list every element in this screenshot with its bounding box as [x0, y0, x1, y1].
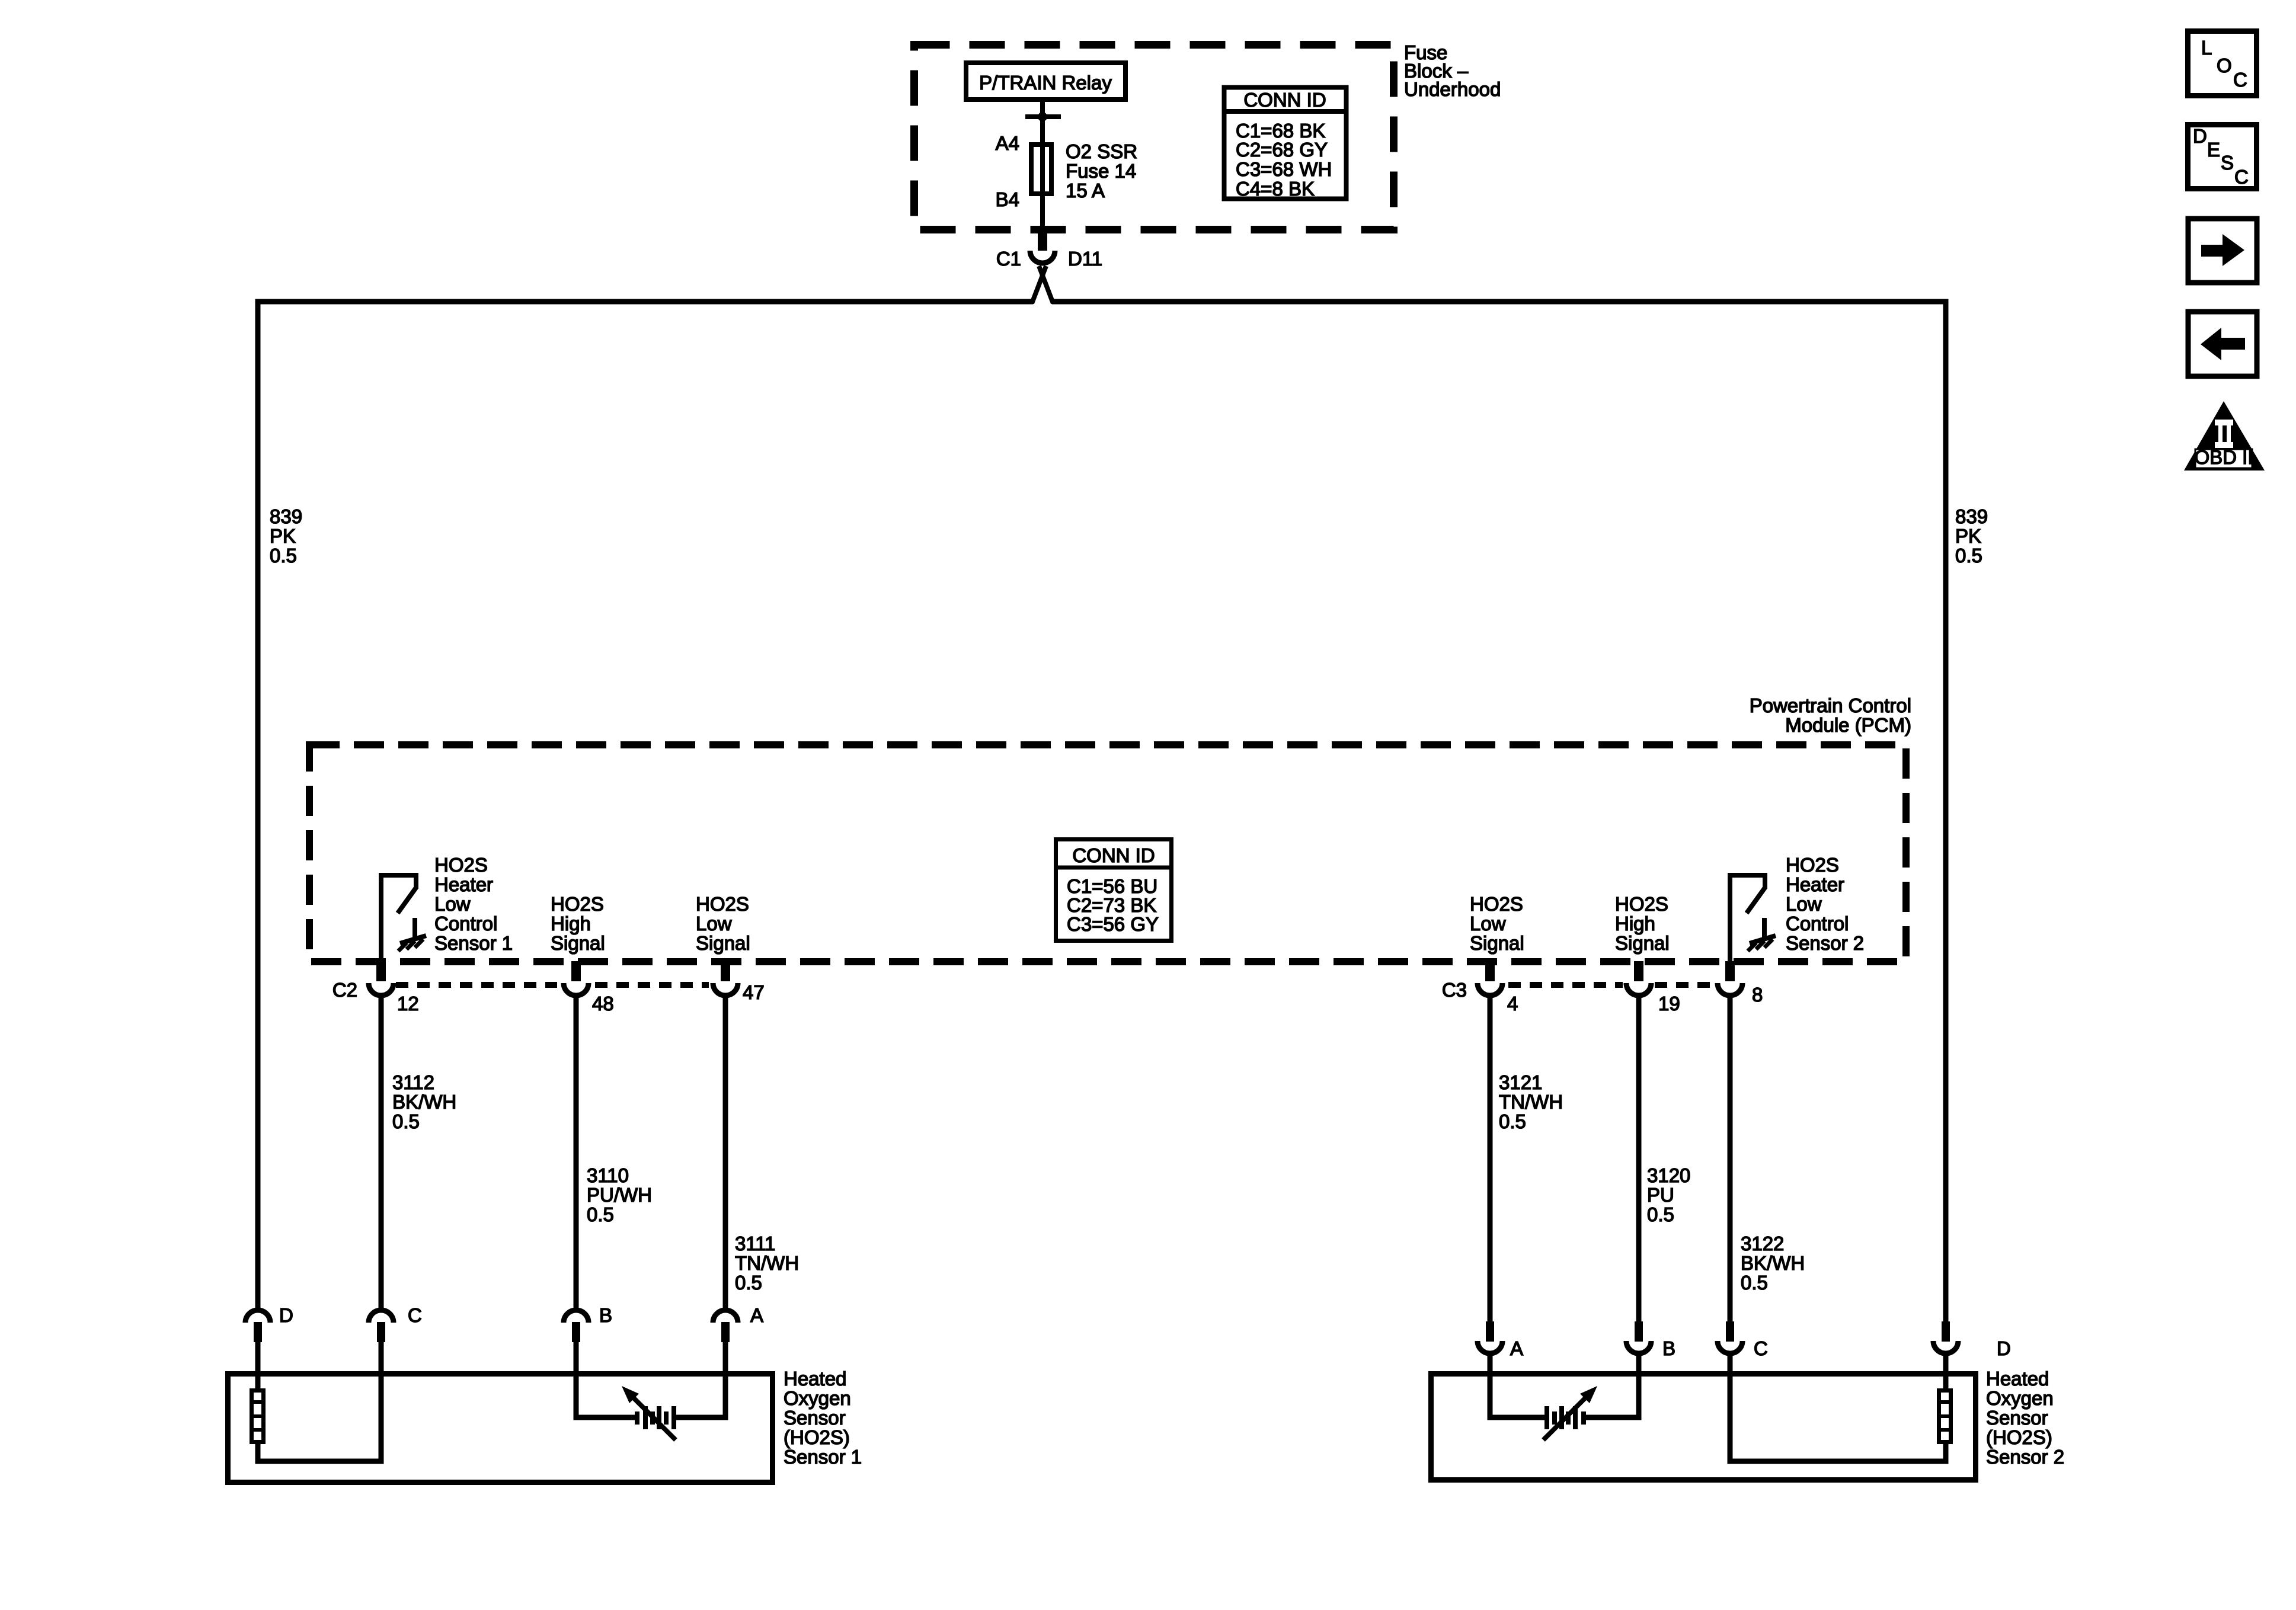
HO2S heater low control driver switch (sensor 1) — [379, 875, 418, 972]
right 839 PK 0.5 label — [1955, 505, 1988, 566]
svg-text:0.5: 0.5 — [1647, 1204, 1674, 1225]
svg-text:3112: 3112 — [392, 1071, 434, 1093]
svg-text:0.5: 0.5 — [735, 1272, 762, 1294]
svg-text:12: 12 — [397, 993, 419, 1014]
sensor2 name label — [1986, 1368, 2064, 1468]
dotted connector line C2 — [396, 982, 709, 988]
svg-text:Low: Low — [696, 913, 732, 934]
sensor1 variable arrow — [622, 1386, 676, 1440]
svg-text:0.5: 0.5 — [392, 1110, 420, 1132]
sensor2 pin D connector — [1933, 1321, 1958, 1375]
wire 3122 BK/WH — [1728, 997, 1733, 1321]
wire 3112 BK/WH — [379, 997, 384, 1309]
svg-text:Control: Control — [1786, 913, 1849, 934]
svg-text:Sensor 2: Sensor 2 — [1786, 932, 1864, 954]
sensor2 variable arrow — [1543, 1386, 1597, 1440]
svg-text:0.5: 0.5 — [1499, 1110, 1526, 1132]
svg-text:Signal: Signal — [1470, 932, 1524, 954]
svg-text:CONN ID: CONN ID — [1243, 89, 1326, 111]
connector C1 pin D11 labels — [996, 248, 1102, 270]
ground stub (sensor 2 driver) — [1762, 918, 1767, 937]
sensor1 box Heated Oxygen Sensor 1 — [228, 1374, 773, 1483]
svg-text:Module (PCM): Module (PCM) — [1785, 714, 1911, 736]
svg-text:TN/WH: TN/WH — [1499, 1091, 1563, 1113]
svg-text:HO2S: HO2S — [1786, 854, 1839, 876]
PCM dashed box — [309, 745, 1906, 962]
svg-text:839: 839 — [1955, 505, 1988, 527]
svg-text:HO2S: HO2S — [1615, 893, 1668, 915]
label 3112 BK/WH 0.5 — [392, 1071, 456, 1132]
svg-text:47: 47 — [743, 981, 765, 1003]
svg-text:C1: C1 — [996, 248, 1021, 270]
svg-text:C: C — [408, 1304, 422, 1326]
svg-text:PK: PK — [270, 525, 296, 547]
svg-text:HO2S: HO2S — [551, 893, 604, 915]
svg-text:3110: 3110 — [587, 1164, 629, 1186]
svg-text:Fuse 14: Fuse 14 — [1066, 160, 1136, 182]
svg-text:Sensor 1: Sensor 1 — [434, 932, 513, 954]
sensor1 sense cell wiring — [576, 1374, 725, 1417]
left 839 PK 0.5 label — [270, 505, 302, 566]
svg-text:C: C — [1754, 1337, 1768, 1359]
forward arrow icon — [2188, 219, 2257, 283]
svg-text:8: 8 — [1752, 984, 1763, 1006]
wire 839 PK right run — [1052, 302, 1946, 1321]
svg-text:HO2S: HO2S — [434, 854, 488, 876]
sensor1 pin A connector — [713, 1310, 738, 1375]
label 3121 TN/WH 0.5 — [1499, 1071, 1563, 1132]
HO2S heater low control driver switch (sensor 2) — [1728, 875, 1767, 972]
svg-text:Low: Low — [434, 893, 471, 915]
LOC icon — [2188, 31, 2257, 96]
svg-text:B4: B4 — [996, 188, 1019, 210]
svg-text:High: High — [1615, 913, 1655, 934]
PCM pin 8 connector — [1718, 961, 1742, 996]
svg-text:PU: PU — [1647, 1184, 1674, 1206]
sensor2 sense cell wiring — [1490, 1374, 1639, 1417]
relay P/TRAIN Relay — [966, 63, 1125, 100]
wire 839 PK left run — [258, 302, 1033, 1309]
svg-text:C4=8 BK: C4=8 BK — [1236, 178, 1315, 200]
svg-text:Low: Low — [1470, 913, 1506, 934]
PCM pin 4 connector C3 — [1478, 961, 1502, 996]
svg-text:Heated: Heated — [1986, 1368, 2049, 1390]
PCM name label Powertrain Control Module — [1750, 694, 1911, 736]
PCM pin 47 connector — [713, 961, 738, 996]
sensor2 pin C connector — [1718, 1321, 1742, 1375]
DESC icon — [2188, 125, 2257, 189]
sensor2 heater element — [1937, 1391, 1953, 1442]
wire 3121 TN/WH — [1488, 997, 1493, 1321]
svg-text:P/TRAIN Relay: P/TRAIN Relay — [979, 72, 1112, 94]
svg-text:(HO2S): (HO2S) — [784, 1426, 850, 1448]
svg-text:L: L — [2201, 37, 2212, 59]
CONN ID table (fuse block) — [1222, 88, 1348, 200]
HO2S High Signal label (pin 19) — [1615, 893, 1670, 954]
svg-text:839: 839 — [270, 505, 302, 527]
svg-text:Low: Low — [1786, 893, 1822, 915]
sensor1 pin D connector — [245, 1310, 270, 1375]
svg-text:C: C — [2234, 166, 2249, 188]
splice Y from C1 D11 to 839 bus — [1032, 266, 1053, 303]
svg-text:3111: 3111 — [735, 1233, 776, 1254]
svg-text:0.5: 0.5 — [270, 545, 297, 566]
HO2S Heater Low Control Sensor 2 label — [1786, 854, 1864, 954]
fuse block dashed box (Fuse Block - Underhood) — [914, 45, 1394, 230]
svg-text:Control: Control — [434, 913, 497, 934]
svg-text:OBD II: OBD II — [2194, 446, 2253, 468]
svg-text:O2 SSR: O2 SSR — [1066, 140, 1137, 162]
svg-text:O: O — [2217, 55, 2232, 76]
HO2S Low Signal label (pin 47) — [696, 893, 750, 954]
svg-text:S: S — [2221, 152, 2234, 174]
svg-text:C2: C2 — [332, 979, 357, 1001]
sensor1 name label — [784, 1368, 862, 1468]
svg-text:High: High — [551, 913, 591, 934]
dotted connector line C3 — [1508, 982, 1714, 988]
sensor1 heater element — [250, 1391, 266, 1442]
svg-text:B: B — [1662, 1337, 1675, 1359]
svg-text:Underhood: Underhood — [1404, 78, 1501, 100]
svg-text:Sensor: Sensor — [1986, 1407, 2048, 1429]
PCM pin 19 connector — [1626, 961, 1651, 996]
svg-text:HO2S: HO2S — [696, 893, 749, 915]
svg-text:Sensor 1: Sensor 1 — [784, 1446, 862, 1468]
sensor1 pin B connector — [564, 1310, 589, 1375]
svg-text:Oxygen: Oxygen — [1986, 1387, 2054, 1409]
svg-text:3122: 3122 — [1741, 1233, 1784, 1254]
chassis ground (sensor 2 driver) — [1748, 936, 1776, 951]
sensor1 pin C connector — [369, 1310, 394, 1375]
svg-text:Heater: Heater — [1786, 873, 1844, 895]
CONN ID table (PCM) — [1054, 840, 1172, 941]
svg-text:Oxygen: Oxygen — [784, 1387, 851, 1409]
svg-text:3120: 3120 — [1647, 1164, 1690, 1186]
chassis ground (sensor 1 driver) — [398, 936, 426, 951]
svg-text:Sensor 2: Sensor 2 — [1986, 1446, 2064, 1468]
wire 3111 TN/WH — [723, 997, 728, 1309]
svg-text:C3=68 WH: C3=68 WH — [1236, 158, 1332, 180]
svg-text:19: 19 — [1658, 993, 1680, 1014]
relay pin tee bar — [1025, 114, 1061, 119]
label 3120 PU 0.5 — [1647, 1164, 1690, 1225]
label 3110 PU/WH 0.5 — [587, 1164, 652, 1225]
svg-text:HO2S: HO2S — [1470, 893, 1523, 915]
PCM pin 12 connector C2 — [369, 961, 394, 996]
svg-text:Powertrain Control: Powertrain Control — [1750, 694, 1911, 716]
svg-text:C3: C3 — [1442, 979, 1467, 1001]
wire 3110 PU/WH — [574, 997, 579, 1309]
svg-text:D11: D11 — [1068, 248, 1102, 270]
svg-text:0.5: 0.5 — [587, 1204, 614, 1225]
fuse F14 O2 SSR 15 A — [1031, 145, 1051, 194]
sensor2 heater wiring — [1730, 1374, 1946, 1461]
HO2S Heater Low Control Sensor 1 label — [434, 854, 513, 954]
sensor1 heater wiring — [258, 1374, 381, 1461]
svg-text:A: A — [750, 1304, 763, 1326]
svg-text:(HO2S): (HO2S) — [1986, 1426, 2052, 1448]
svg-text:CONN ID: CONN ID — [1072, 844, 1155, 866]
sensor2 variable sense cell — [1547, 1406, 1584, 1429]
PCM pin 48 connector — [564, 961, 589, 996]
svg-text:4: 4 — [1507, 993, 1518, 1014]
HO2S High Signal label (pin 48) — [551, 893, 605, 954]
svg-text:Heater: Heater — [434, 873, 493, 895]
fuse block name label — [1404, 41, 1501, 100]
svg-text:48: 48 — [592, 993, 614, 1014]
svg-text:Sensor: Sensor — [784, 1407, 846, 1429]
sensor2 pin A connector — [1478, 1321, 1502, 1375]
svg-text:0.5: 0.5 — [1741, 1272, 1768, 1294]
svg-text:C3=56 GY: C3=56 GY — [1067, 913, 1159, 935]
OBD II icon — [2184, 401, 2265, 470]
svg-text:D: D — [2193, 125, 2207, 147]
wire relay to fuse 14 — [1040, 102, 1045, 233]
sensor1 variable sense cell — [637, 1406, 674, 1429]
fuse value label O2 SSR Fuse 14 15 A — [1066, 140, 1137, 201]
svg-text:B: B — [599, 1304, 612, 1326]
svg-text:PU/WH: PU/WH — [587, 1184, 652, 1206]
svg-text:Signal: Signal — [696, 932, 750, 954]
svg-text:Heated: Heated — [784, 1368, 846, 1390]
svg-text:BK/WH: BK/WH — [1741, 1252, 1805, 1274]
svg-text:0.5: 0.5 — [1955, 545, 1982, 566]
HO2S Low Signal label (pin 4) — [1470, 893, 1524, 954]
junction dot — [1038, 112, 1047, 121]
svg-text:3121: 3121 — [1499, 1071, 1542, 1093]
ground stub (sensor 1 driver) — [412, 918, 417, 937]
label 3122 BK/WH 0.5 — [1741, 1233, 1805, 1294]
svg-text:D: D — [1997, 1337, 2011, 1359]
sensor2 box Heated Oxygen Sensor 2 — [1431, 1374, 1976, 1480]
wire 3120 PU — [1636, 997, 1642, 1321]
svg-text:C: C — [2233, 69, 2247, 91]
label 3111 TN/WH 0.5 — [735, 1233, 799, 1294]
svg-text:PK: PK — [1955, 525, 1981, 547]
svg-text:C2=68 GY: C2=68 GY — [1236, 139, 1328, 161]
svg-text:A: A — [1510, 1337, 1523, 1359]
svg-text:E: E — [2207, 139, 2220, 161]
svg-text:Signal: Signal — [1615, 932, 1670, 954]
svg-text:D: D — [279, 1304, 293, 1326]
svg-text:Signal: Signal — [551, 932, 605, 954]
svg-text:15 A: 15 A — [1066, 180, 1105, 201]
svg-text:TN/WH: TN/WH — [735, 1252, 799, 1274]
svg-text:A4: A4 — [996, 132, 1019, 154]
back arrow icon — [2188, 312, 2257, 376]
connector C1 pin D11 (male bar and female cup) — [1030, 231, 1055, 263]
sensor2 pin B connector — [1626, 1321, 1651, 1375]
svg-text:BK/WH: BK/WH — [392, 1091, 456, 1113]
